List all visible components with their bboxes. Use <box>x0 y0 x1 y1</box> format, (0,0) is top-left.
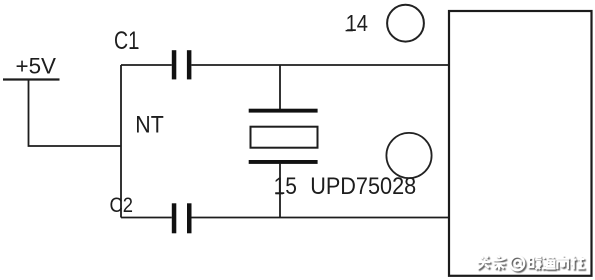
serif feet on digit 1 of C1, 14, 15 <box>130 30 353 194</box>
svg-text:+5V: +5V <box>16 54 57 79</box>
capacitor C2 <box>172 203 192 233</box>
wire C1 left <box>121 64 172 66</box>
crystal NT top plate <box>249 109 318 113</box>
svg-text:14: 14 <box>346 10 369 36</box>
svg-text:NT: NT <box>135 111 164 138</box>
crystal NT top lead wire <box>279 65 281 110</box>
svg-text:C2: C2 <box>110 194 134 217</box>
crystal NT bottom plate <box>249 160 318 164</box>
wire C2 left <box>121 217 172 219</box>
crystal NT body <box>251 127 318 148</box>
svg-text:15: 15 <box>274 173 297 200</box>
pin 14 circle <box>387 5 424 42</box>
pin 15 circle <box>386 133 431 178</box>
svg-text:C1: C1 <box>114 27 139 55</box>
power rail +5V bar <box>3 78 60 80</box>
wire C2 right to IC <box>192 217 449 219</box>
wire vertical bus between C1 and C2 <box>120 65 122 218</box>
wire C1 right to IC <box>191 64 448 66</box>
capacitor C1 <box>172 50 192 79</box>
crystal NT bottom lead wire <box>279 164 281 218</box>
wire from +5V rail down and right to node <box>29 80 122 147</box>
IC U1 UPD75028 body <box>449 11 592 276</box>
